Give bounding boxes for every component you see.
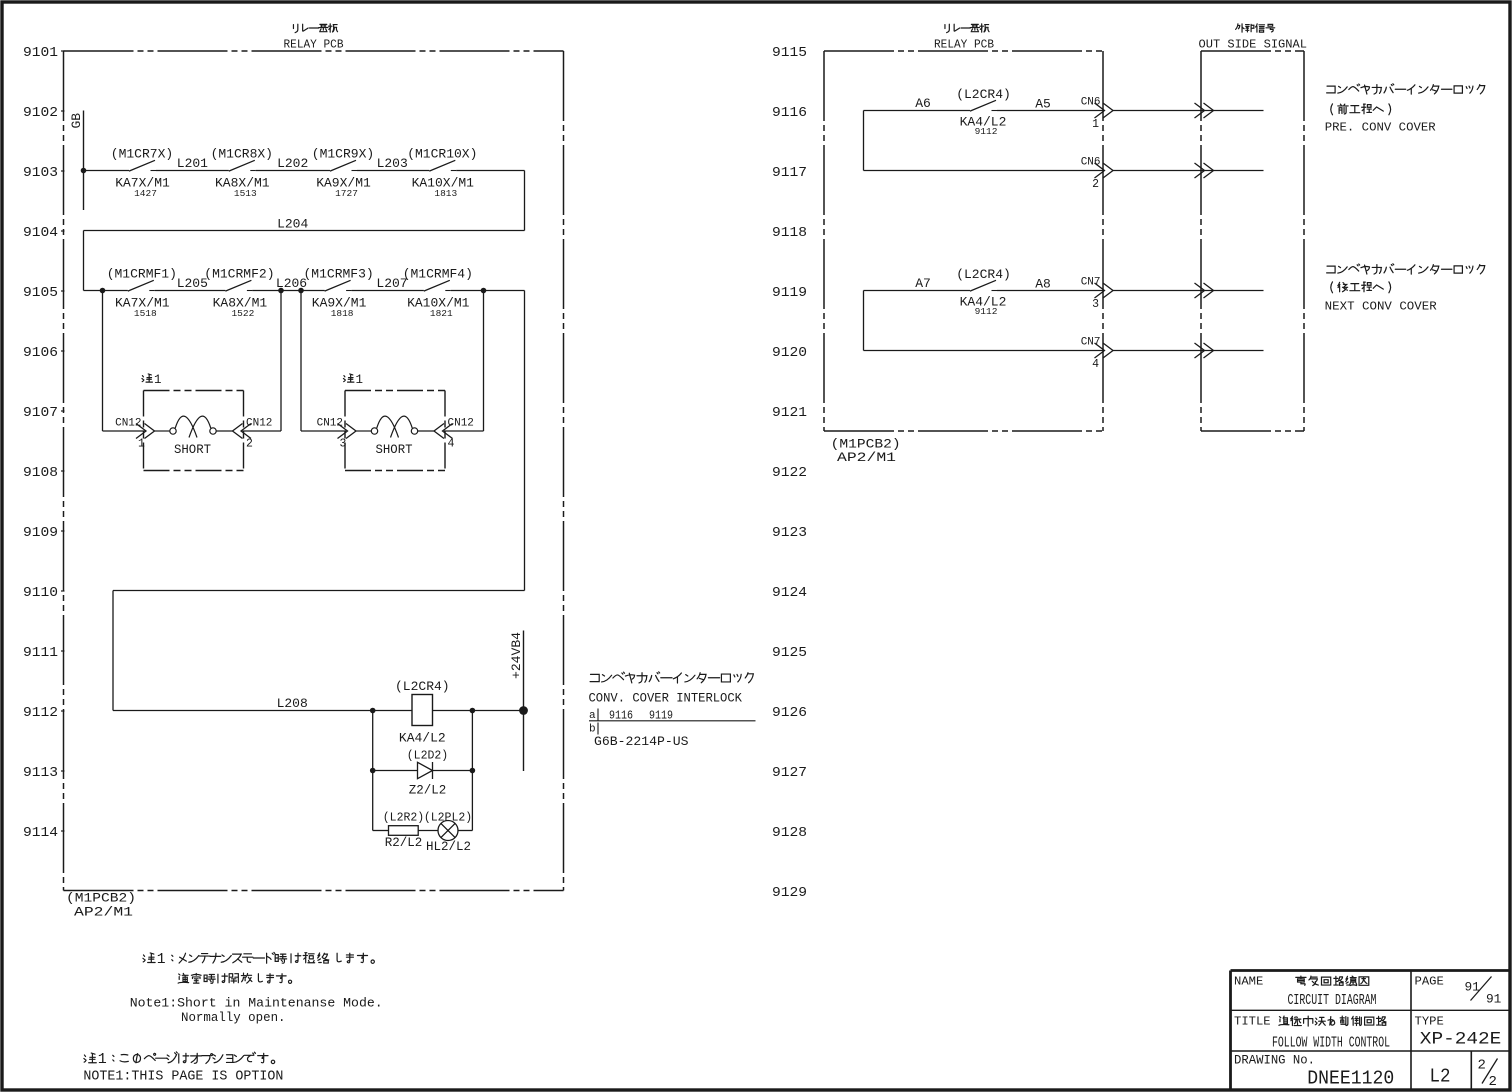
wire L204 [84, 230, 525, 232]
svg-text:RELAY PCB: RELAY PCB [284, 38, 344, 52]
svg-text:PAGE: PAGE [1415, 975, 1444, 989]
svg-text:A5: A5 [1035, 97, 1051, 112]
svg-text:2: 2 [1478, 1058, 1486, 1074]
SHORT option enclosure (dash-dot box) [144, 390, 244, 392]
outside signal enclosure [1201, 50, 1304, 52]
svg-text:TITLE: TITLE [1234, 1015, 1271, 1029]
svg-text:(M1CR10X): (M1CR10X) [407, 147, 477, 162]
svg-text:L201: L201 [177, 156, 208, 171]
svg-text:(M1CRMF4): (M1CRMF4) [403, 267, 473, 282]
svg-text:L202: L202 [277, 156, 308, 171]
contact KA7X/M1 (M1CRMF1) [128, 280, 154, 291]
svg-text:L208: L208 [277, 696, 308, 711]
svg-text:(M1CR8X): (M1CR8X) [211, 147, 273, 162]
wire bottom row [864, 170, 1104, 172]
annotation: PRE CONV COVER [1327, 86, 1335, 93]
connector pin CN12-4 arrows [443, 424, 453, 439]
svg-text:1513: 1513 [234, 188, 257, 199]
svg-text:1518: 1518 [134, 308, 157, 319]
svg-text:1522: 1522 [231, 308, 254, 319]
svg-text:(L2CR4): (L2CR4) [956, 87, 1011, 102]
page option note japanese [84, 1053, 96, 1063]
svg-text:1: 1 [138, 438, 145, 451]
svg-text:(L2CR4): (L2CR4) [395, 679, 450, 694]
svg-text:CONV. COVER INTERLOCK: CONV. COVER INTERLOCK [589, 691, 743, 706]
svg-text:9117: 9117 [772, 165, 807, 181]
svg-text:SHORT: SHORT [174, 443, 211, 457]
svg-text:1727: 1727 [335, 188, 358, 199]
svg-text:A8: A8 [1035, 277, 1051, 292]
resistor R2/L2 (L2R2) [389, 826, 419, 836]
node: GB bus junction on line 9103 [81, 168, 87, 174]
diode Z2/L2 (L2D2) [418, 762, 433, 778]
wire: left loop line [863, 111, 865, 171]
svg-text:9119: 9119 [772, 285, 807, 301]
svg-text:R2/L2: R2/L2 [385, 836, 423, 850]
wire top row [864, 290, 971, 292]
node: +24VB4 tap (big dot) [519, 706, 528, 715]
svg-text:4: 4 [1092, 358, 1099, 371]
relay PCB enclosure (right) [824, 50, 1103, 52]
svg-text:NEXT CONV COVER: NEXT CONV COVER [1325, 300, 1438, 314]
svg-text:a: a [589, 710, 596, 722]
svg-text:3: 3 [340, 438, 347, 451]
connector pin CN12-2 arrows [241, 424, 251, 439]
svg-text:Z2/L2: Z2/L2 [409, 784, 447, 798]
svg-text:CN6: CN6 [1081, 157, 1101, 169]
wire from line 9105 down to CN12 pin 1 [102, 291, 104, 432]
svg-text:9118: 9118 [772, 225, 807, 241]
wire: left loop line [863, 291, 865, 351]
label リレー基板 (left box) [293, 24, 297, 32]
svg-text:L2: L2 [1430, 1066, 1451, 1088]
outside signal pin arrows [1195, 103, 1205, 118]
svg-text:(M1CRMF2): (M1CRMF2) [204, 267, 274, 282]
note 1 japanese line 2 [178, 973, 189, 983]
title block divider columns [1410, 971, 1412, 1090]
svg-text:DNEE1120: DNEE1120 [1307, 1068, 1394, 1090]
svg-text:+24VB4: +24VB4 [510, 632, 524, 679]
svg-text:9108: 9108 [23, 465, 58, 481]
svg-text:KA4/L2: KA4/L2 [399, 731, 446, 746]
svg-text:AP2/M1: AP2/M1 [837, 450, 896, 465]
svg-text:NAME: NAME [1234, 975, 1263, 989]
svg-text:CN6: CN6 [1081, 97, 1101, 109]
note mark 注1 [142, 374, 152, 382]
svg-text:(M1CRMF1): (M1CRMF1) [107, 267, 177, 282]
contact KA7X/M1 (M1CR7X) [129, 160, 155, 171]
outside signal pin arrows [1195, 283, 1205, 298]
wire line 9103 [84, 170, 130, 172]
svg-text:1818: 1818 [331, 308, 354, 319]
svg-text:1813: 1813 [434, 188, 457, 199]
svg-text:CN12: CN12 [317, 418, 343, 430]
note 1 japanese line 1 [143, 953, 155, 963]
svg-text:2: 2 [246, 438, 253, 451]
svg-text:9110: 9110 [23, 585, 58, 601]
svg-text:9111: 9111 [23, 645, 58, 661]
svg-text:1427: 1427 [134, 188, 157, 199]
svg-text:9109: 9109 [23, 525, 58, 541]
wire: coil branch down (right) [471, 711, 473, 831]
SHORT jumper terminals and link [356, 430, 371, 432]
svg-text:GB: GB [69, 113, 84, 129]
contact KA8X/M1 (M1CR8X) [229, 160, 255, 171]
contact KA9X/M1 (M1CR9X) [330, 160, 356, 171]
svg-text:1: 1 [157, 952, 166, 968]
contact KA9X/M1 (M1CRMF3) [325, 280, 351, 291]
svg-text:(M1CRMF3): (M1CRMF3) [303, 267, 373, 282]
relay PCB enclosure (left) [64, 50, 564, 52]
svg-text:(L2CR4): (L2CR4) [956, 267, 1011, 282]
svg-text:Normally open.: Normally open. [181, 1010, 286, 1025]
contact KA4/L2 (L2CR4) [970, 100, 996, 111]
wire segment after contact [997, 290, 1103, 292]
wire: coil branch down (left) [372, 711, 374, 831]
contact KA8X/M1 (M1CRMF2) [225, 280, 251, 291]
svg-text:9124: 9124 [772, 585, 807, 601]
svg-text:9103: 9103 [23, 165, 58, 181]
wire line 9114 (lamp row) [373, 830, 389, 832]
GB bus stub [83, 111, 85, 211]
svg-text:L203: L203 [377, 156, 408, 171]
svg-text:9112: 9112 [975, 126, 998, 137]
svg-text:1: 1 [154, 373, 162, 387]
label リレー基板 (right box) [945, 24, 949, 32]
svg-text:PRE. CONV COVER: PRE. CONV COVER [1325, 121, 1437, 135]
wire segment after contact [997, 110, 1103, 112]
wire top row [864, 110, 971, 112]
wire to outside box [1113, 290, 1264, 292]
title block divider rows [1231, 1009, 1510, 1011]
connector pin CN12-1 arrows [136, 424, 146, 439]
svg-text:CN7: CN7 [1081, 277, 1101, 289]
svg-text:4: 4 [448, 438, 455, 451]
contact KA10X/M1 (M1CRMF4) [424, 280, 450, 291]
svg-text:(L2R2): (L2R2) [383, 812, 424, 825]
svg-text:1: 1 [98, 1051, 107, 1068]
svg-text:9113: 9113 [23, 765, 58, 781]
svg-text:G6B-2214P-US: G6B-2214P-US [594, 734, 689, 749]
svg-text:CIRCUIT DIAGRAM: CIRCUIT DIAGRAM [1288, 992, 1377, 1009]
wire to outside box [1113, 110, 1264, 112]
svg-text:9127: 9127 [772, 765, 807, 781]
wire: line 9105 right side down [524, 291, 526, 591]
junction dots on line 9105 [100, 288, 106, 294]
svg-text:9128: 9128 [772, 825, 807, 841]
svg-text:TYPE: TYPE [1415, 1015, 1444, 1029]
wire L208 [113, 710, 412, 712]
junction dots on L208 [370, 708, 376, 714]
svg-text:2: 2 [1489, 1074, 1497, 1090]
svg-text:9123: 9123 [772, 525, 807, 541]
svg-text:L204: L204 [277, 217, 308, 232]
wire: line 9103 down to L204 [524, 171, 526, 231]
indicator lamp HL2/L2 (L2PL2) [438, 821, 458, 841]
svg-text:9126: 9126 [772, 705, 807, 721]
svg-text:AP2/M1: AP2/M1 [74, 905, 133, 920]
svg-text:A7: A7 [915, 276, 931, 291]
wire across line 9110 [113, 590, 525, 592]
svg-text:9129: 9129 [772, 885, 807, 901]
annotation: NEXT CONV COVER [1327, 266, 1335, 273]
svg-text:9102: 9102 [23, 105, 58, 121]
svg-text:9105: 9105 [23, 285, 58, 301]
svg-text:Note1:Short in Maintenanse Mod: Note1:Short in Maintenanse Mode. [130, 996, 383, 1011]
svg-text:9121: 9121 [772, 405, 807, 421]
svg-text:CN12: CN12 [448, 418, 474, 430]
wire down to L208 [112, 591, 114, 711]
wire from line 9105 down to CN12 pin 3 [300, 291, 302, 432]
svg-text:(M1CR9X): (M1CR9X) [312, 147, 374, 162]
contact KA10X/M1 (M1CR10X) [429, 160, 455, 171]
SHORT option enclosure (dash-dot box) [345, 390, 445, 392]
title block frame [1231, 969, 1510, 972]
svg-text:9101: 9101 [23, 45, 58, 61]
svg-text:9122: 9122 [772, 465, 807, 481]
wire line 9113 (diode row) [373, 770, 418, 772]
svg-text:9125: 9125 [772, 645, 807, 661]
svg-text:3: 3 [1092, 298, 1099, 311]
svg-text:1: 1 [356, 373, 364, 387]
svg-text:CN12: CN12 [246, 418, 272, 430]
note: conveyor cover interlock (middle) [590, 674, 599, 681]
svg-text:9115: 9115 [772, 45, 807, 61]
svg-text:9104: 9104 [23, 225, 58, 241]
svg-text:9114: 9114 [23, 825, 58, 841]
svg-text:XP-242E: XP-242E [1420, 1030, 1502, 1050]
svg-text:9112: 9112 [23, 705, 58, 721]
svg-text:9106: 9106 [23, 345, 58, 361]
wire bottom row [864, 350, 1104, 352]
svg-text:91: 91 [1486, 991, 1502, 1006]
+24VB4 bus stub [523, 631, 525, 772]
svg-text:CN7: CN7 [1081, 337, 1101, 349]
svg-text:1: 1 [1092, 118, 1099, 131]
svg-text:RELAY PCB: RELAY PCB [934, 38, 994, 52]
SHORT jumper terminals and link [155, 430, 170, 432]
wire: L204 down to line 9105 [83, 231, 85, 291]
wire from line 9105 down to CN12 pin 2 [280, 291, 282, 432]
wire line 9105 [84, 290, 128, 292]
svg-text:FOLLOW WIDTH CONTROL: FOLLOW WIDTH CONTROL [1272, 1034, 1390, 1051]
svg-text:2: 2 [1092, 178, 1099, 191]
svg-text:9107: 9107 [23, 405, 58, 421]
svg-text:(L2D2): (L2D2) [407, 750, 448, 763]
svg-text:(M1PCB2): (M1PCB2) [66, 891, 136, 906]
svg-text:SHORT: SHORT [376, 443, 413, 457]
svg-text:OUT SIDE SIGNAL: OUT SIDE SIGNAL [1199, 38, 1308, 52]
svg-text:DRAWING No.: DRAWING No. [1234, 1054, 1315, 1068]
wire L208 continued [433, 710, 524, 712]
svg-text:9120: 9120 [772, 345, 807, 361]
note mark 注1 [343, 374, 353, 382]
svg-text:NOTE1:THIS PAGE IS OPTION: NOTE1:THIS PAGE IS OPTION [83, 1070, 283, 1085]
svg-text:L205: L205 [177, 276, 208, 291]
svg-text:CN12: CN12 [115, 418, 141, 430]
wire from line 9105 down to CN12 pin 4 [483, 291, 485, 432]
svg-text:(L2PL2): (L2PL2) [424, 812, 472, 825]
svg-text:9116: 9116 [772, 105, 807, 121]
svg-text:HL2/L2: HL2/L2 [426, 840, 471, 854]
contact KA4/L2 (L2CR4) [970, 280, 996, 291]
svg-text:(M1CR7X): (M1CR7X) [111, 147, 173, 162]
svg-text:1821: 1821 [430, 308, 453, 319]
svg-text:L207: L207 [376, 276, 407, 291]
svg-text:9112: 9112 [975, 306, 998, 317]
label 外部信号 [1236, 24, 1245, 32]
relay coil U: KA4/L2 (L2CR4) [412, 695, 433, 726]
connector pin CN12-3 arrows [338, 424, 348, 439]
svg-text:A6: A6 [915, 96, 931, 111]
